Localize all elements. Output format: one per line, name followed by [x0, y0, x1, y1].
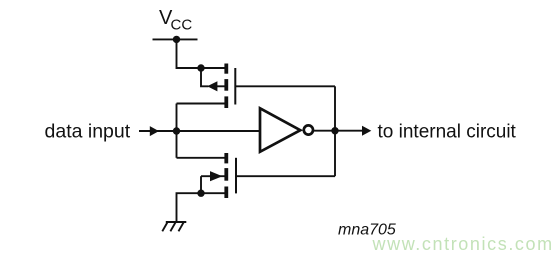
svg-text:CC: CC [171, 17, 193, 34]
input arrowhead [150, 126, 159, 136]
label: data input [45, 120, 131, 142]
VCC power rail [153, 38, 198, 40]
svg-text:data input: data input [45, 120, 131, 142]
watermark: www.cntronics.com [372, 234, 554, 254]
transistor Q2 (n-channel MOSFET) [201, 153, 236, 198]
label: to internal circuit [378, 121, 517, 142]
transistor Q1 (p-channel MOSFET) [207, 64, 235, 109]
node: Q1 drain/body tie [197, 64, 204, 71]
label: mna705 [338, 222, 396, 239]
inverter U1 [260, 108, 313, 152]
wire Q1 body tie [201, 68, 209, 86]
node: VCC junction [173, 36, 180, 43]
wire Q1 source to input node [177, 103, 227, 105]
ground [162, 222, 186, 231]
wire Q1 gate to keeper node [235, 85, 335, 87]
wire Q2 gate to keeper node [236, 175, 335, 177]
node: input junction [173, 127, 180, 134]
output arrowhead [362, 126, 371, 136]
wire inverter output [313, 130, 363, 132]
wire Q2 body tie vertical [200, 176, 202, 193]
node: Q2 source/body tie [197, 190, 204, 197]
svg-text:to internal circuit: to internal circuit [378, 121, 517, 142]
wire VCC to Q1 drain [177, 39, 227, 68]
wire Q2 drain to input node [177, 157, 227, 159]
svg-text:www.cntronics.com: www.cntronics.com [372, 234, 554, 254]
supply label VCC [159, 7, 192, 34]
node: keeper gate junction [331, 127, 338, 134]
wire data input [139, 130, 260, 132]
wire input node vertical [176, 104, 178, 158]
wire Q2 source to ground [177, 193, 227, 222]
wire keeper node vertical [334, 86, 336, 176]
